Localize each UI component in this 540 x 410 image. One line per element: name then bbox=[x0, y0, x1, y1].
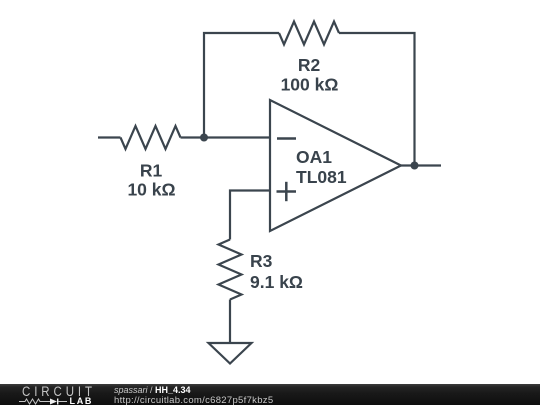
ground bbox=[209, 343, 252, 364]
svg-text:100 kΩ: 100 kΩ bbox=[281, 75, 339, 95]
resistor R2 bbox=[279, 22, 339, 45]
resistor R1 bbox=[121, 126, 181, 149]
op-amp OA1 inverting input minus symbol bbox=[277, 137, 296, 140]
node A junction dot at R1 / feedback bbox=[200, 134, 208, 142]
svg-text:R2: R2 bbox=[298, 55, 321, 75]
wire output stub bbox=[401, 164, 441, 166]
wire feedback top right and right vertical bbox=[339, 33, 415, 166]
svg-text:R3: R3 bbox=[250, 251, 273, 271]
wire R3 to ground bbox=[229, 300, 231, 344]
CircuitLab logo squiggle (resistor + diode) bbox=[19, 398, 69, 406]
footer bar bbox=[0, 384, 540, 405]
resistor R3 bbox=[219, 240, 242, 300]
op-amp OA1 non-inverting input plus symbol bbox=[277, 182, 297, 201]
node B output junction dot bbox=[411, 162, 419, 170]
svg-text:TL081: TL081 bbox=[296, 167, 347, 187]
footer author line bbox=[114, 385, 191, 395]
svg-text:OA1: OA1 bbox=[296, 147, 332, 167]
footer url line bbox=[114, 396, 273, 406]
svg-text:R1: R1 bbox=[140, 161, 163, 181]
CircuitLab logo wordmark CIRCUIT bbox=[22, 385, 96, 398]
wire R1 to op-amp inverting input bbox=[181, 136, 271, 138]
svg-text:10 kΩ: 10 kΩ bbox=[127, 179, 175, 199]
wire feedback left vertical and top left bbox=[204, 33, 279, 138]
CircuitLab logo LAB bbox=[70, 397, 94, 406]
wire input lead bbox=[98, 136, 121, 138]
op-amp OA1 triangle body bbox=[270, 100, 401, 231]
svg-text:9.1 kΩ: 9.1 kΩ bbox=[250, 272, 303, 292]
wire plus input horizontal and vertical down to R3 bbox=[230, 191, 270, 240]
